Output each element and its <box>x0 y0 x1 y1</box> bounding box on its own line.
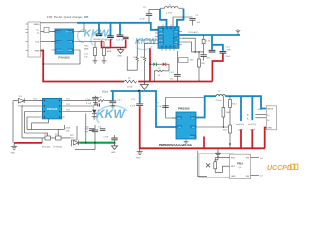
svg-text:5.1K: 5.1K <box>206 41 211 43</box>
svg-text:KICW: KICW <box>135 37 158 46</box>
svg-text:PW2163:5V-1A,2-cell Li b/s: PW2163:5V-1A,2-cell Li b/s <box>159 143 192 147</box>
watermark UCCPD bottom-right orange <box>267 164 298 172</box>
wire red battery return <box>212 53 223 81</box>
ground below green end <box>112 143 118 150</box>
ground input caps <box>117 48 123 54</box>
wire blue drop 3 <box>119 23 121 35</box>
wire loop left <box>71 140 95 150</box>
svg-text:100K: 100K <box>107 51 112 53</box>
svg-text:220K: 220K <box>66 128 71 130</box>
capacitor C2.4b plates <box>123 37 129 39</box>
resistor R4.2 FB upper <box>222 96 231 127</box>
LED D2 red <box>163 63 169 71</box>
wire J1 to rail (thin) <box>41 22 78 24</box>
svg-text:C?uF: C?uF <box>104 137 110 139</box>
ground hang from rail <box>215 149 221 157</box>
svg-text:4.7uF: 4.7uF <box>157 106 163 108</box>
svg-text:FSC: FSC <box>231 157 236 159</box>
svg-text:PW.3: PW.3 <box>237 163 243 166</box>
node J1 red junction <box>42 63 44 65</box>
svg-text:D-: D- <box>267 120 270 122</box>
resistor R4.4 <box>229 96 238 125</box>
svg-text:PW6606: PW6606 <box>58 56 70 60</box>
wire J1 D+ to U1 <box>41 31 56 33</box>
wire U1 to divider <box>78 41 105 43</box>
node green junctions <box>85 142 87 144</box>
svg-text:VBUS: VBUS <box>66 31 72 33</box>
svg-text:4.7uF: 4.7uF <box>140 19 146 21</box>
ground R1.1 <box>93 61 98 63</box>
svg-text:GND: GND <box>35 50 40 52</box>
svg-text:SW: SW <box>246 176 249 178</box>
capacitor C4.1 under rail <box>109 91 122 108</box>
svg-text:GND: GND <box>11 153 16 155</box>
capacitor C2.3 <box>117 35 124 37</box>
filter FB1 <box>44 27 49 32</box>
capacitor C2.2 <box>107 36 114 38</box>
svg-text:GND: GND <box>227 50 232 52</box>
node <box>138 90 140 92</box>
wire blue battery bridge <box>212 35 223 51</box>
capacitor C1.2 blue to red <box>130 91 143 108</box>
svg-text:GND: GND <box>136 158 141 160</box>
svg-text:ILIM: ILIM <box>159 43 163 45</box>
svg-text:EN: EN <box>246 157 249 159</box>
wire FB row <box>196 126 230 128</box>
wire red stub C2.2 <box>110 39 112 48</box>
capacitor C6 <box>157 103 169 108</box>
thin rect EN routing with cap <box>166 98 205 119</box>
SW riser thick blue <box>196 96 216 117</box>
wire U2 right pin to node <box>182 38 195 52</box>
svg-text:CC2: CC2 <box>57 41 62 43</box>
wire left input <box>13 100 42 102</box>
svg-text:4.7uH: 4.7uH <box>166 13 172 15</box>
resistor R1.1 <box>84 42 97 61</box>
svg-text:GND: GND <box>267 128 272 130</box>
svg-text:xxx(C4.1): xxx(C4.1) <box>236 124 244 126</box>
bottom caps cluster labels <box>89 129 106 131</box>
op IC U1 PW6606 <box>52 29 78 60</box>
wire FSC row <box>215 158 230 160</box>
wire EN out <box>251 157 260 159</box>
svg-text:PW2163: PW2163 <box>178 107 190 111</box>
node <box>149 63 151 65</box>
svg-text:2.2uF: 2.2uF <box>130 106 136 108</box>
svg-text:4.7uH: 4.7uH <box>216 100 222 102</box>
resistor R4.5 <box>223 125 231 148</box>
svg-text:100K: 100K <box>226 112 231 114</box>
charger IC U2 <box>155 25 182 52</box>
IC U5 footprint <box>230 154 251 179</box>
VBUS rail thick blue top <box>77 23 158 30</box>
wire U1 VBUS tap <box>78 23 85 32</box>
ground under red corner <box>137 149 143 154</box>
diode D4 to ground <box>92 110 97 119</box>
wire TX3 row <box>65 111 92 113</box>
svg-text:D-: D- <box>37 33 40 35</box>
svg-text:GND: GND <box>231 176 236 178</box>
node <box>194 51 196 53</box>
X do-not-fit mark <box>206 163 210 167</box>
resistor R2.3 <box>198 51 206 81</box>
BAT rail thick blue <box>179 34 240 36</box>
svg-text:VBUS: VBUS <box>34 24 40 26</box>
svg-text:GND: GND <box>190 137 195 139</box>
capacitor C2.1 <box>96 34 102 36</box>
wire blue drop 2 <box>110 23 112 36</box>
svg-text:3.9K: 3.9K <box>66 131 71 133</box>
red wire U4 to rail <box>203 137 205 149</box>
resistor R1.2 <box>103 42 112 61</box>
svg-text:VBUS: VBUS <box>267 109 273 111</box>
svg-text:PW1136: PW1136 <box>47 107 58 111</box>
svg-text:100K: 100K <box>84 49 89 51</box>
wire TX2 row <box>65 105 94 107</box>
watermark KKW bottom-mid <box>93 100 127 123</box>
output cap blue C2.1 <box>251 96 253 120</box>
resistor R2.2 divider from rail <box>202 35 211 54</box>
svg-text:50mR: 50mR <box>127 87 133 89</box>
capacitor C4a with ground <box>86 96 99 105</box>
wire red VBAT drop <box>149 48 151 81</box>
red wire bottom-left <box>14 142 42 144</box>
wire stub <box>41 138 43 143</box>
svg-text:C2.3 1uF: C2.3 1uF <box>116 39 125 41</box>
svg-text:xxx(C2.1): xxx(C2.1) <box>248 124 256 126</box>
capacitor C2.6 <box>220 51 227 53</box>
green wire <box>79 142 115 144</box>
sense resistor RS on red rail <box>124 78 138 89</box>
wire TVS row <box>22 129 70 138</box>
ground below red rail <box>140 82 148 90</box>
svg-text:GND: GND <box>118 56 123 58</box>
battery symbol end <box>236 29 240 34</box>
red connector return <box>265 128 267 149</box>
wire blue drop 1 <box>98 23 100 34</box>
svg-text:2k: 2k <box>158 75 160 77</box>
watermark KKW mid (under IC2) <box>135 37 158 49</box>
wire SW out <box>251 174 260 176</box>
svg-text:CC1: CC1 <box>35 41 40 43</box>
resistor R5.1 <box>214 158 219 169</box>
capacitor C1.9 <box>170 51 181 82</box>
svg-text:+RX2: +RX2 <box>257 109 263 111</box>
resistor R3.1 zigzag on TX1 row <box>96 97 113 102</box>
red VBUS wire main <box>41 51 213 82</box>
svg-text:F30: 5V-2A, Quick charger, MB: F30: 5V-2A, Quick charger, MB <box>47 15 88 19</box>
svg-text:UCCPD: UCCPD <box>267 165 292 172</box>
watermark KKW top-left <box>78 28 112 46</box>
ground R1.2 <box>102 61 107 63</box>
output cap blue C4.1 <box>240 96 242 121</box>
svg-text:(PTVL05): (PTVL05) <box>54 147 63 149</box>
svg-text:22uF: 22uF <box>226 56 231 58</box>
wire TX1 row <box>65 100 96 102</box>
IC U3 PW1136 <box>39 98 70 119</box>
NTC box <box>179 58 189 63</box>
diode D3 schottky <box>18 96 24 108</box>
USB out connector J2 <box>257 106 277 130</box>
capacitor C2.4 <box>200 55 211 61</box>
5Vout rail thick blue <box>111 91 177 127</box>
svg-text:CC1: CC1 <box>57 31 62 33</box>
svg-text:NTC: NTC <box>174 45 179 47</box>
svg-text:(PR4-A80): (PR4-A80) <box>188 31 199 34</box>
svg-text:VBM: VBM <box>67 50 72 52</box>
capacitor C2.5 <box>209 50 216 52</box>
svg-text:5Vout: 5Vout <box>102 91 108 94</box>
capacitor C3 <box>140 7 161 23</box>
svg-text:SDA: SDA <box>68 40 73 43</box>
TVS diode D6 <box>56 136 62 140</box>
capacitor C5 <box>173 15 201 27</box>
svg-text:4.7uF: 4.7uF <box>86 103 92 105</box>
wire J1 CC to U1 <box>41 41 56 43</box>
wire red U ground return <box>102 40 126 48</box>
svg-text:GND: GND <box>57 50 62 52</box>
IC U4 <box>172 112 196 142</box>
wire U2 right pin 2 to node <box>182 42 204 52</box>
module border box <box>199 154 234 178</box>
capacitor row2 cluster <box>86 103 100 106</box>
capacitor C10b <box>85 129 99 143</box>
diode D7 <box>70 135 79 145</box>
connector J1 <box>26 22 41 57</box>
wire verticals to green <box>77 125 95 143</box>
svg-text:VCC: VCC <box>174 35 179 37</box>
wire to green LED <box>150 63 153 65</box>
5V USB rail thick blue <box>225 96 266 108</box>
resistor R1.3 from ILIM <box>127 40 155 82</box>
LED D1 green <box>153 63 162 67</box>
wire CC return thin <box>43 50 80 64</box>
wire left verticals <box>13 101 39 143</box>
svg-text:NTC: NTC <box>190 60 195 62</box>
wire U3 bottom routing <box>27 119 64 129</box>
svg-text:EN: EN <box>178 118 181 120</box>
svg-text:VIN: VIN <box>178 127 182 129</box>
inductor L2 <box>216 91 226 103</box>
ground under U4 <box>184 142 189 144</box>
ground bottom-left <box>11 143 17 149</box>
svg-text:(PTL405): (PTL405) <box>42 147 51 149</box>
svg-text:10n: 10n <box>170 79 173 81</box>
resistor R1.5 horizontal <box>154 68 169 82</box>
svg-text:C?uF: C?uF <box>86 99 92 101</box>
TVS diode D5 <box>45 136 51 140</box>
wire D- stub <box>255 117 266 119</box>
red cap returns <box>240 129 242 148</box>
svg-text:GND: GND <box>111 152 116 154</box>
red wire to bottom rail <box>139 106 265 148</box>
inductor L1 <box>160 5 184 27</box>
svg-text:GND: GND <box>159 33 164 35</box>
wire mid vertical to green <box>85 114 87 126</box>
wire SET link <box>215 166 230 172</box>
svg-text:C2.2 1uF: C2.2 1uF <box>105 39 114 41</box>
wire from rail into module <box>198 151 207 177</box>
wire D+ stub <box>255 114 266 116</box>
capacitor above green end <box>104 135 118 143</box>
